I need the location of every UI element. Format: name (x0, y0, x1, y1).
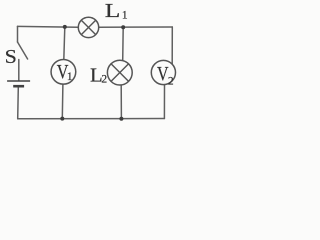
svg-text:S: S (5, 45, 17, 68)
lamp L1 (78, 17, 98, 37)
svg-text:1: 1 (67, 71, 73, 83)
switch S blade (18, 42, 28, 59)
wire: right rail upper (to V2) (171, 27, 173, 64)
junction node: bottom rail / L2 branch (119, 117, 123, 121)
wire: left rail upper stub (to switch) (17, 26, 19, 42)
battery: short thick plate (13, 85, 24, 88)
battery: long plate (7, 80, 30, 82)
wire: L2 branch upper (122, 27, 125, 61)
wire: V1 branch lower (61, 84, 64, 119)
svg-text:2: 2 (101, 73, 107, 85)
voltmeter V1 (51, 59, 76, 84)
wire: top rail right segment (99, 26, 173, 28)
svg-text:V: V (157, 62, 169, 84)
svg-text:L: L (105, 0, 121, 21)
wire: top rail left segment (18, 25, 79, 28)
wire: switch lower stub to battery (18, 60, 20, 81)
svg-text:2: 2 (168, 76, 174, 88)
wire: V2 branch lower (163, 85, 165, 119)
junction node: top rail / L2 branch (121, 25, 125, 29)
lamp L2 (107, 60, 132, 85)
junction node: top rail / V1 branch (63, 25, 67, 29)
junction node: bottom rail / V1 branch (60, 117, 64, 121)
wire: bottom rail (18, 118, 165, 120)
voltmeter V2 (151, 60, 175, 87)
wire: L2 branch lower (120, 85, 122, 119)
background paper (0, 0, 182, 124)
wire: battery to bottom-left corner (17, 87, 20, 119)
wire: V1 branch upper (64, 27, 65, 60)
svg-text:1: 1 (122, 10, 128, 22)
